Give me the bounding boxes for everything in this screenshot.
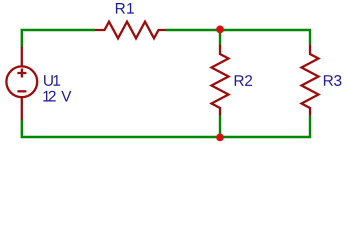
wire top-right run [166, 30, 311, 45]
label R3 [324, 75, 342, 86]
wire R2 bottom [219, 116, 221, 139]
voltage source U1 [6, 47, 37, 121]
label R1 [116, 3, 134, 14]
label U1 [44, 75, 60, 86]
junction node top [216, 26, 224, 34]
wire R2 top [219, 29, 221, 45]
junction node bottom [216, 134, 224, 142]
resistor R2 [212, 45, 229, 116]
wire top-left corner [22, 30, 95, 47]
resistor R3 [302, 45, 319, 116]
resistor R1 [95, 22, 166, 39]
label 12 V [43, 91, 71, 102]
wire bottom run [22, 116, 310, 138]
label R2 [235, 75, 252, 86]
